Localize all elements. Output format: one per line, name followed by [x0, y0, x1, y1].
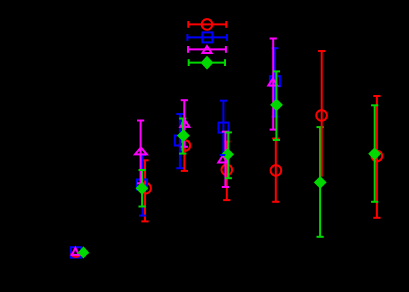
- green data point at x=320: long error bar + filled diamond: [317, 127, 324, 237]
- red data point cluster C: error bar + open circle: [181, 123, 188, 171]
- blue series: legend entry, x-error bar with open square: [187, 34, 227, 41]
- red data point at x=321: long error bar + open circle: [318, 51, 325, 177]
- green data point cluster C: error bar + filled diamond: [179, 119, 186, 154]
- red data point cluster D: error bar + open circle: [223, 142, 230, 201]
- red data point cluster A: open circle (visible bottom-left arc): [71, 253, 80, 256]
- green data point cluster B: error bar + filled diamond: [139, 170, 146, 207]
- magenta data point cluster A: open triangle: [72, 248, 79, 255]
- red data point cluster E: error bar + open circle: [272, 139, 279, 202]
- blue data point cluster E: error bar + open square: [271, 48, 278, 116]
- magenta series: legend entry, x-error bar with open triangle: [188, 46, 226, 53]
- red data point cluster B: error bar + open circle: [141, 160, 148, 221]
- green data point cluster A: small x-error bar + filled diamond: [77, 252, 89, 254]
- red series: legend entry, x-error bar with open circle: [188, 21, 226, 28]
- blue data point cluster C: error bar + open square: [176, 114, 183, 168]
- magenta data point cluster B: error bar + open triangle: [137, 121, 144, 184]
- blue data point cluster A: open square: [71, 247, 81, 257]
- blue data point cluster D: error bar + open square: [220, 101, 227, 155]
- green series: legend entry, x-error bar with filled diamond: [189, 59, 225, 66]
- green error-bar top cap of cluster C (drawn under magenta triangle): [179, 118, 186, 120]
- green data point cluster D: error bar + filled diamond: [225, 132, 232, 178]
- magenta data point cluster E: error bar + open triangle: [270, 39, 277, 130]
- blue data point cluster B: error bar + open square: [139, 155, 146, 216]
- blue error-bar bottom cap of cluster D (drawn on top, visible over triangle apex): [220, 154, 226, 156]
- magenta data point cluster C: error bar + open triangle: [181, 100, 188, 147]
- green data point cluster F: error bar + filled diamond: [371, 105, 378, 202]
- green data point cluster E: error bar + filled diamond: [273, 71, 280, 140]
- magenta data point cluster D: error bar + open triangle: [222, 132, 229, 187]
- red data point cluster F: error bar + open circle: [373, 96, 380, 218]
